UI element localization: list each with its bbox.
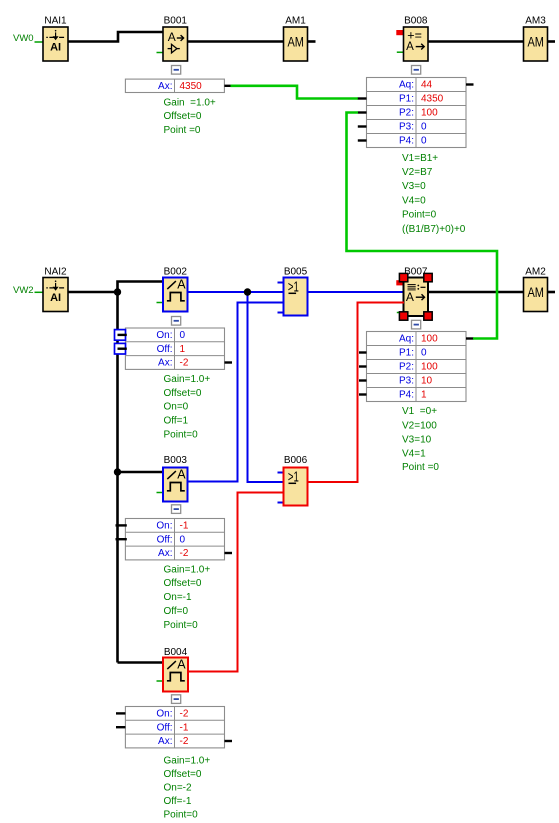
svg-text:Gain=1.0+: Gain=1.0+ [164, 564, 211, 575]
wire B008 output to AM3 [428, 40, 525, 43]
svg-text:-1: -1 [180, 722, 189, 733]
svg-text:B003: B003 [164, 455, 188, 466]
svg-text:V3=0: V3=0 [402, 181, 426, 192]
svg-text:Offset=0: Offset=0 [164, 769, 202, 780]
wire AM3 output stub [547, 40, 555, 43]
svg-text:100: 100 [421, 334, 438, 345]
annotation B003 parameters [164, 564, 211, 631]
junction node at NAI2 [114, 288, 121, 295]
param table B008 [358, 78, 474, 148]
svg-text:10: 10 [421, 376, 433, 387]
svg-text:0: 0 [180, 330, 186, 341]
svg-text:0: 0 [421, 122, 427, 133]
junction node on B002 output [244, 288, 251, 295]
svg-text:V2=B7: V2=B7 [402, 167, 433, 178]
param table B003 [116, 519, 233, 560]
svg-text:P1:: P1: [399, 94, 414, 105]
wire trunk to B004 input [118, 661, 165, 664]
svg-text:Off=1: Off=1 [164, 416, 189, 427]
svg-text:A: A [168, 30, 176, 44]
svg-text:V3=10: V3=10 [402, 435, 432, 446]
wire junction to B003 input [118, 471, 165, 474]
param box B001 Ax [125, 79, 231, 92]
minus expander B003 [172, 505, 181, 514]
svg-text:100: 100 [421, 362, 438, 373]
svg-text:Point=0: Point=0 [402, 210, 437, 221]
svg-text:Off:: Off: [157, 722, 173, 733]
svg-text:On:: On: [156, 330, 172, 341]
svg-text:P2:: P2: [399, 108, 414, 119]
svg-text:Ax:: Ax: [158, 736, 172, 747]
annotation B004 parameters [164, 756, 211, 821]
analog network input NAI1 [43, 16, 68, 61]
analog output AM1 [284, 16, 308, 61]
svg-text:On:: On: [156, 709, 172, 720]
svg-text:Offset=0: Offset=0 [164, 111, 202, 122]
svg-text:Gain =1.0+: Gain =1.0+ [164, 98, 216, 109]
OR block B006 [278, 455, 308, 506]
svg-text:B002: B002 [164, 266, 188, 277]
svg-text:P1:: P1: [399, 348, 414, 359]
analog ramp block B007 (selected) [396, 266, 432, 320]
svg-text:VW0: VW0 [13, 33, 34, 44]
wire B007 output to AM2 [428, 291, 525, 294]
wire junction B002 down to B006 input 2 (blue) [248, 292, 285, 482]
svg-text:Off=-1: Off=-1 [164, 796, 192, 807]
svg-text:Off=0: Off=0 [164, 606, 189, 617]
svg-text:AM3: AM3 [525, 16, 546, 27]
minus expander B002 [172, 317, 181, 326]
wire NAI2 output to junction [68, 291, 118, 294]
svg-text:On=0: On=0 [164, 402, 189, 413]
svg-text:AM: AM [527, 285, 544, 300]
wire B004 output to B006 input 3 (red) [188, 493, 285, 672]
wire B001.Ax to B008.P1 (green) [231, 86, 359, 99]
wire B007.Aq to B008.P2 (green) [347, 113, 498, 339]
svg-text:A: A [406, 41, 414, 53]
svg-text:1: 1 [180, 344, 186, 355]
amplifier block B001 [157, 16, 188, 61]
svg-text:AM2: AM2 [525, 266, 546, 277]
svg-text:P3:: P3: [399, 376, 414, 387]
svg-text:A: A [177, 277, 186, 291]
svg-text:Ax:: Ax: [158, 548, 172, 559]
annotation B008 parameters [402, 153, 466, 235]
svg-text:Gain=1.0+: Gain=1.0+ [164, 374, 211, 385]
svg-text:B006: B006 [284, 455, 308, 466]
svg-text:Aq:: Aq: [399, 334, 414, 345]
svg-text:A: A [177, 467, 186, 481]
wire junction to B002 input [118, 282, 165, 293]
svg-text:0: 0 [421, 348, 427, 359]
svg-text:-1: -1 [180, 521, 189, 532]
svg-text:VW2: VW2 [13, 285, 34, 296]
net VW2 [13, 285, 44, 296]
svg-text:AM: AM [287, 34, 304, 49]
svg-text:P3:: P3: [399, 122, 414, 133]
svg-text:AM: AM [527, 34, 544, 49]
wire B006 output to B007 input 3 (red) [307, 303, 404, 483]
svg-text:Off:: Off: [157, 534, 173, 545]
svg-text:V1 =0+: V1 =0+ [402, 406, 437, 417]
svg-text:On=-2: On=-2 [164, 783, 193, 794]
wire AM1 output stub [307, 40, 316, 43]
analog threshold trigger B002 [157, 266, 188, 311]
param table B007 [359, 332, 474, 402]
svg-text:AI: AI [50, 41, 61, 53]
param table B004 [116, 707, 232, 748]
svg-text:B008: B008 [404, 16, 428, 27]
svg-text:B005: B005 [284, 266, 308, 277]
minus expander B007 [412, 320, 421, 329]
svg-text:NAI2: NAI2 [44, 266, 67, 277]
svg-text:Point=0: Point=0 [164, 810, 199, 821]
analog output AM2 [524, 266, 548, 311]
svg-text:-2: -2 [180, 548, 189, 559]
svg-text:On:: On: [156, 521, 172, 532]
svg-text:P4:: P4: [399, 390, 414, 401]
svg-text:Point=0: Point=0 [164, 620, 199, 631]
wire B005 output to B007 input (blue) [307, 291, 404, 293]
analog threshold trigger B003 [157, 455, 188, 502]
annotation B001 parameters [164, 98, 216, 137]
wire NAI1 output to B001 input [68, 32, 165, 42]
svg-text:B004: B004 [164, 647, 188, 658]
junction node at B003 [114, 468, 121, 475]
svg-text:A: A [177, 657, 186, 671]
svg-text:AM1: AM1 [285, 16, 306, 27]
wire B002 output to B005 input 2 (blue) [187, 291, 284, 293]
svg-text:B001: B001 [164, 16, 188, 27]
wire B001 output to AM1 [187, 40, 284, 43]
svg-text:0: 0 [180, 534, 186, 545]
svg-text:Ax:: Ax: [158, 81, 172, 92]
svg-text:AI: AI [50, 292, 61, 304]
svg-text:Ax:: Ax: [158, 358, 172, 369]
svg-text:4350: 4350 [180, 81, 203, 92]
svg-text:Aq:: Aq: [399, 80, 414, 91]
param table B002 [115, 328, 233, 369]
annotation B007 parameters [402, 406, 439, 473]
minus expander B001 [172, 66, 181, 75]
analog math block B008 [396, 16, 428, 61]
svg-text:Point=0: Point=0 [164, 429, 199, 440]
svg-text:Offset=0: Offset=0 [164, 578, 202, 589]
svg-text:((B1/B7)+0)+0: ((B1/B7)+0)+0 [402, 224, 466, 235]
svg-text:-2: -2 [180, 709, 189, 720]
svg-text:V4=0: V4=0 [402, 195, 426, 206]
svg-text:V1=B1+: V1=B1+ [402, 153, 438, 164]
svg-text:A: A [406, 290, 414, 304]
svg-text:-2: -2 [180, 736, 189, 747]
annotation B002 parameters [164, 374, 211, 440]
net VW0 [13, 33, 44, 44]
svg-text:V4=1: V4=1 [402, 448, 426, 459]
svg-text:100: 100 [421, 108, 438, 119]
wire B003 output to B005 input 3 (blue) [187, 303, 284, 482]
svg-text:Point =0: Point =0 [402, 462, 439, 473]
trunk wire down to B003/B004 [116, 292, 119, 663]
analog network input NAI2 [43, 266, 68, 311]
svg-text:44: 44 [421, 80, 433, 91]
wire AM2 output stub [547, 291, 555, 294]
svg-text:P4:: P4: [399, 136, 414, 147]
OR block B005 [278, 266, 308, 315]
svg-text:Off:: Off: [157, 344, 173, 355]
svg-text:Gain=1.0+: Gain=1.0+ [164, 756, 211, 767]
minus expander B004 [172, 695, 181, 704]
svg-text:0: 0 [421, 136, 427, 147]
svg-text:-2: -2 [180, 358, 189, 369]
svg-text:P2:: P2: [399, 362, 414, 373]
svg-text:NAI1: NAI1 [44, 16, 67, 27]
svg-text:Offset=0: Offset=0 [164, 388, 202, 399]
analog threshold trigger B004 [157, 647, 189, 692]
svg-text:On=-1: On=-1 [164, 592, 193, 603]
svg-text:V2=100: V2=100 [402, 420, 437, 431]
minus expander B008 [412, 66, 421, 75]
svg-text:1: 1 [421, 390, 427, 401]
analog output AM3 [524, 16, 548, 61]
svg-text:4350: 4350 [421, 94, 444, 105]
svg-text:Point =0: Point =0 [164, 125, 201, 136]
